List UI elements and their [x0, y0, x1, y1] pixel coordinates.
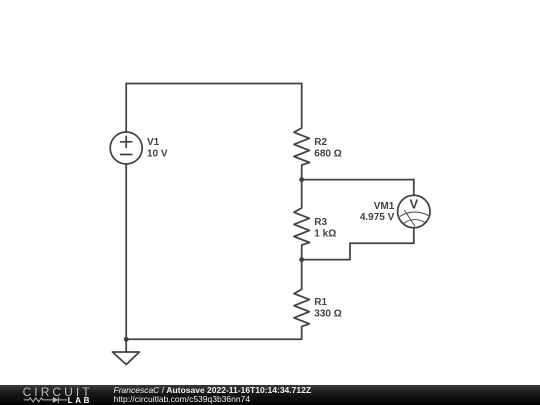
wire step down — [349, 243, 351, 259]
svg-text:R3: R3 — [314, 217, 327, 228]
ground node junction dot — [124, 337, 129, 342]
svg-text:LAB: LAB — [68, 396, 92, 405]
node B junction dot — [299, 257, 304, 262]
resistor R1 — [294, 260, 309, 340]
wire voltmeter top lead — [413, 180, 415, 196]
ground — [113, 339, 140, 364]
wire left vertical V1 to bottom — [125, 164, 127, 339]
svg-text:R1: R1 — [314, 297, 327, 308]
svg-text:10 V: 10 V — [147, 149, 168, 160]
svg-text:R2: R2 — [314, 137, 327, 148]
voltage source V1 — [110, 132, 142, 164]
svg-text:4.975 V: 4.975 V — [360, 212, 395, 223]
wire node A to voltmeter — [302, 179, 414, 181]
resistor R2 — [294, 128, 309, 180]
svg-text:V: V — [409, 197, 418, 212]
svg-text:330 Ω: 330 Ω — [314, 309, 341, 320]
wire to node B — [302, 259, 350, 261]
footer attribution text — [114, 386, 312, 395]
svg-text:1 kΩ: 1 kΩ — [314, 229, 336, 240]
svg-text:VM1: VM1 — [374, 201, 395, 212]
CircuitLab logo — [0, 385, 100, 405]
footer url text — [114, 395, 251, 404]
wire top-right vertical to R2 — [301, 84, 303, 129]
wire top horizontal — [126, 83, 302, 85]
wire voltmeter bottom horizontal — [350, 242, 414, 244]
wire bottom horizontal — [126, 338, 302, 340]
resistor R3 — [294, 180, 309, 260]
wire voltmeter bottom lead — [413, 228, 415, 244]
footer bar — [0, 385, 540, 405]
svg-text:V1: V1 — [147, 137, 160, 148]
wire top-left vertical — [125, 84, 127, 133]
svg-text:680 Ω: 680 Ω — [314, 149, 341, 160]
node A junction dot — [299, 177, 304, 182]
voltmeter VM1 — [398, 195, 430, 227]
